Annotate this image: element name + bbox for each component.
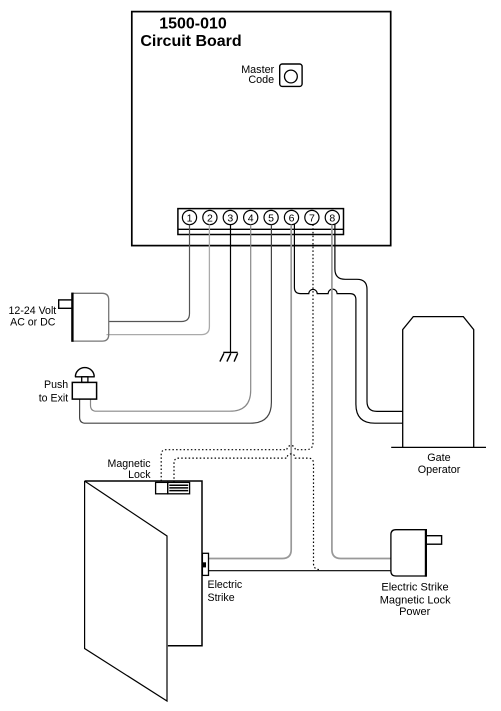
svg-text:Electric Strike: Electric Strike [381, 582, 448, 594]
wire terminal 2 to power supply [107, 225, 210, 335]
strike power supply PS2 body [391, 530, 426, 576]
magnetic lock armature plate [156, 482, 168, 493]
terminal 7 [305, 210, 319, 224]
door panel [85, 481, 167, 701]
circuit board U1 outline [132, 12, 391, 246]
power supply PS1 12-24V body [72, 293, 108, 341]
gate operator base line [391, 446, 486, 448]
svg-text:5: 5 [268, 212, 274, 224]
svg-text:AC or DC: AC or DC [10, 317, 56, 329]
cable terminal 6 to electric strike [209, 225, 292, 559]
gate operator body [403, 317, 474, 448]
terminal strip TB1 [178, 209, 344, 235]
master code button S1 [280, 64, 302, 86]
cable terminal 8 to strike power supply [332, 225, 391, 559]
svg-text:1500-010: 1500-010 [159, 15, 227, 32]
push to exit button S2 dome [75, 368, 95, 377]
svg-text:Gate: Gate [427, 452, 450, 464]
power supply PS1 wall side [71, 293, 73, 342]
wire terminal 5 to push-to-exit [80, 225, 272, 424]
terminal strip inner line [178, 228, 344, 230]
magnetic lock magnet [168, 482, 190, 493]
wire terminal 4 to push-to-exit [91, 225, 251, 412]
svg-text:Lock: Lock [128, 469, 151, 481]
svg-text:Electric: Electric [208, 579, 243, 591]
power supply PS1 prong [59, 300, 73, 308]
svg-text:8: 8 [329, 212, 335, 224]
wire terminal 3 to ground [230, 225, 232, 353]
wire electric strike to strike power supply [209, 570, 391, 572]
svg-text:Power: Power [399, 606, 431, 618]
ground symbol [220, 352, 238, 361]
terminal 8 [325, 210, 339, 224]
dashed wire magnetic lock to strike power [174, 454, 321, 571]
svg-text:Strike: Strike [208, 592, 235, 604]
svg-text:1: 1 [187, 212, 193, 224]
strike power supply wall side [425, 529, 427, 577]
svg-text:Code: Code [248, 74, 274, 86]
svg-text:7: 7 [309, 212, 315, 224]
svg-text:Operator: Operator [418, 464, 461, 476]
terminal 1 [182, 210, 196, 224]
wire terminal 6 to gate operator [294, 225, 402, 424]
svg-text:Push: Push [44, 379, 68, 391]
svg-text:3: 3 [227, 212, 233, 224]
terminal 6 [284, 210, 298, 224]
terminal 3 [223, 210, 237, 224]
svg-text:Circuit Board: Circuit Board [140, 33, 241, 50]
door frame [85, 481, 202, 646]
push to exit button body [72, 382, 96, 399]
terminal 4 [244, 210, 258, 224]
wire terminal 1 to power supply [109, 225, 190, 322]
dashed wire terminal 7 to magnetic lock [161, 225, 313, 483]
terminal 5 [264, 210, 278, 224]
svg-text:12-24 Volt: 12-24 Volt [9, 305, 57, 317]
electric strike keeper [203, 562, 206, 567]
electric strike body [202, 553, 208, 575]
wire terminal 8 to gate operator [335, 225, 403, 412]
push to exit button neck [82, 377, 88, 383]
terminal 2 [203, 210, 217, 224]
svg-text:Magnetic Lock: Magnetic Lock [380, 594, 451, 606]
svg-text:2: 2 [207, 212, 213, 224]
svg-text:to Exit: to Exit [39, 393, 68, 405]
svg-text:4: 4 [248, 212, 254, 224]
svg-text:6: 6 [289, 212, 295, 224]
strike power supply prong [426, 536, 442, 545]
